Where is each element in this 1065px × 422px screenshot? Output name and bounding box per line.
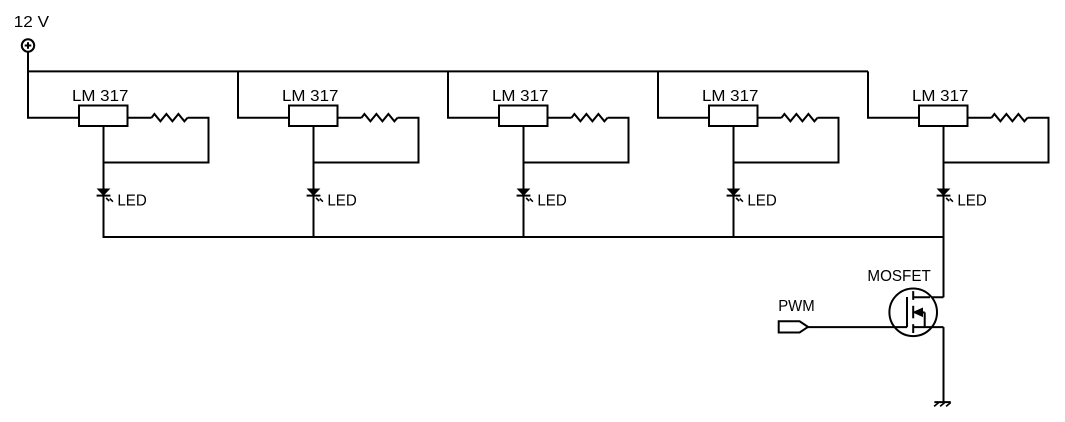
regulator U3 LM 317 body: [499, 106, 548, 127]
regulator U5 LM 317 body: [919, 106, 968, 127]
resistor R3: [572, 114, 608, 121]
resistor R5: [992, 114, 1028, 121]
wire: supply to U1 input: [27, 51, 80, 117]
wire: top rail drop to U3 input: [447, 71, 500, 117]
svg-text:LED: LED: [747, 193, 776, 210]
wire: top rail drop to U4 input: [657, 71, 710, 117]
wire: U4 output to resistor R4: [758, 117, 782, 119]
resistor R4: [782, 114, 818, 121]
LED D2: [307, 189, 323, 202]
wire: U3 output to resistor R3: [548, 117, 572, 119]
resistor R1: [152, 114, 188, 121]
wire: LED D2 cathode down to common rail: [313, 196, 315, 238]
svg-text:LM 317: LM 317: [492, 88, 548, 105]
wire: U5 adjust pin down to LED D5 anode: [943, 126, 945, 190]
wire: R3 to adjust feedback loop of U3: [523, 118, 629, 163]
wire: U5 output to resistor R5: [968, 117, 992, 119]
wire: R5 to adjust feedback loop of U5: [943, 118, 1049, 163]
regulator U1 LM 317 body: [79, 106, 128, 127]
wire: PWM tag to MOSFET gate: [808, 326, 907, 328]
LED D3: [517, 189, 533, 202]
power source terminal (circle with plus): [22, 39, 34, 51]
wire: bottom rail down to MOSFET drain: [914, 237, 944, 297]
LED D5: [937, 189, 953, 202]
svg-text:LM 317: LM 317: [72, 88, 128, 105]
wire: U3 adjust pin down to LED D3 anode: [523, 126, 525, 190]
wire: U2 adjust pin down to LED D2 anode: [313, 126, 315, 190]
LED D4: [727, 189, 743, 202]
wire: MOSFET source to ground: [943, 327, 945, 402]
wire: LED D5 cathode down to common rail: [943, 196, 945, 238]
wire: R2 to adjust feedback loop of U2: [313, 118, 419, 163]
PWM input port tag: [779, 321, 808, 332]
svg-text:LED: LED: [537, 193, 566, 210]
wire: top rail drop to U5 input: [867, 71, 920, 117]
svg-text:LM 317: LM 317: [912, 88, 968, 105]
wire: U4 adjust pin down to LED D4 anode: [733, 126, 735, 190]
svg-text:MOSFET: MOSFET: [867, 268, 931, 285]
wire: top supply rail: [28, 70, 868, 72]
ground: [934, 402, 951, 406]
wire: R1 to adjust feedback loop of U1: [103, 118, 209, 163]
regulator U4 LM 317 body: [709, 106, 758, 127]
wire: U1 output to resistor R1: [128, 117, 152, 119]
wire: U1 adjust pin down to LED D1 anode: [103, 126, 105, 190]
wire: LED D1 cathode down to common rail: [103, 196, 105, 238]
svg-text:12 V: 12 V: [14, 14, 50, 31]
resistor R2: [362, 114, 398, 121]
svg-text:LED: LED: [957, 193, 986, 210]
wire: R4 to adjust feedback loop of U4: [733, 118, 839, 163]
wire: LED D3 cathode down to common rail: [523, 196, 525, 238]
svg-text:LM 317: LM 317: [282, 88, 338, 105]
LED D1: [97, 189, 113, 202]
wire: common cathode bottom rail: [104, 236, 944, 238]
svg-text:PWM: PWM: [778, 298, 815, 315]
svg-text:LED: LED: [327, 193, 356, 210]
transistor Q1 N-channel MOSFET: [889, 289, 943, 337]
regulator U2 LM 317 body: [289, 106, 338, 127]
svg-text:LED: LED: [117, 193, 146, 210]
wire: top rail drop to U2 input: [237, 71, 290, 117]
wire: U2 output to resistor R2: [338, 117, 362, 119]
svg-text:LM 317: LM 317: [702, 88, 758, 105]
wire: LED D4 cathode down to common rail: [733, 196, 735, 238]
